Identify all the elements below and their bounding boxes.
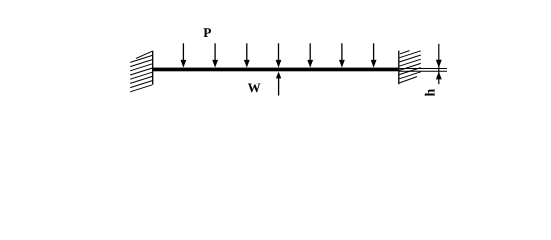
svg-text:P: P (203, 25, 211, 40)
svg-text:h: h (424, 89, 439, 97)
svg-text:W: W (248, 80, 261, 95)
